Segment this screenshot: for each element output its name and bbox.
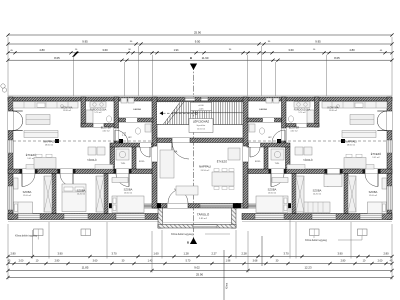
svg-text:KAMRA: KAMRA bbox=[133, 108, 141, 111]
svg-text:KÖZL.: KÖZL. bbox=[139, 160, 146, 163]
dimension chain top row 1 (25.90) bbox=[6, 31, 393, 37]
right bedroom 2 wardrobe bbox=[296, 176, 304, 212]
left unit shower cabin bbox=[116, 149, 129, 165]
extension lines from top dimension chain bbox=[8, 37, 392, 96]
left kitchen counter bbox=[13, 102, 78, 108]
right bedroom 3 label SZOBA bbox=[268, 188, 277, 195]
svg-text:KÖZL.: KÖZL. bbox=[255, 160, 262, 163]
left ELOTER label bbox=[101, 125, 112, 133]
svg-text:3.90: 3.90 bbox=[337, 252, 343, 256]
left unit bathroom wall a bbox=[81, 97, 86, 127]
svg-text:13.60 m2: 13.60 m2 bbox=[124, 193, 133, 195]
svg-text:SZOBA: SZOBA bbox=[369, 190, 378, 194]
svg-text:SZOBA: SZOBA bbox=[313, 189, 322, 193]
svg-text:2.80: 2.80 bbox=[383, 252, 389, 256]
svg-text:9.95: 9.95 bbox=[315, 39, 321, 43]
right bathroom fixtures bbox=[288, 102, 314, 123]
outer wall bottom left wing bbox=[8, 214, 158, 222]
right unit bathroom wall b bbox=[282, 97, 287, 147]
right bathroom label FURDOSZOBA bbox=[294, 109, 311, 115]
svg-text:-0.05: -0.05 bbox=[199, 108, 205, 110]
right dining table 2 bbox=[344, 154, 366, 168]
svg-text:14.20 m2: 14.20 m2 bbox=[313, 194, 322, 196]
left bedroom 1 bed bbox=[14, 178, 33, 214]
left dining table 2 bbox=[34, 154, 56, 168]
left bedroom 1 label SZOBA bbox=[23, 190, 32, 197]
right dining area label ETKEZO bbox=[371, 151, 381, 159]
svg-text:WC: WC bbox=[128, 137, 132, 139]
svg-text:15.80 m2: 15.80 m2 bbox=[329, 110, 338, 112]
vestibule labels bbox=[167, 151, 227, 173]
right bedroom 1 wardrobe bbox=[348, 176, 356, 212]
right unit bedroom divider 1 bbox=[344, 174, 348, 214]
svg-text:SZOBA: SZOBA bbox=[77, 189, 86, 193]
right kitchen counter bbox=[322, 102, 387, 108]
left dining area label ETKEZO bbox=[26, 152, 36, 160]
left unit shower room walls bbox=[110, 147, 136, 170]
storage annex (TAROLO) walls hatched bbox=[158, 208, 236, 228]
svg-text:SZOBA: SZOBA bbox=[23, 190, 32, 194]
svg-text:TUS.: TUS. bbox=[121, 163, 126, 165]
svg-text:3.70: 3.70 bbox=[111, 252, 117, 256]
svg-text:TUS.: TUS. bbox=[275, 163, 280, 165]
stairwell side wall right bbox=[243, 97, 248, 208]
stair landing top text box bbox=[191, 102, 212, 111]
right hall label bbox=[255, 160, 262, 163]
recessed center south wall bbox=[152, 204, 248, 209]
left unit bedroom divider 2 bbox=[104, 174, 108, 214]
left unit pantry bottom wall bbox=[119, 118, 154, 122]
right mid wall cabinets above bbox=[287, 165, 374, 170]
svg-text:FÜRDŐSZOBA: FÜRDŐSZOBA bbox=[294, 109, 311, 112]
svg-text:8.05: 8.05 bbox=[54, 56, 60, 60]
left bathroom label FURDOSZOBA bbox=[90, 109, 107, 115]
svg-text:12.23: 12.23 bbox=[305, 266, 312, 270]
svg-text:25.90: 25.90 bbox=[196, 273, 203, 277]
left bedroom 2 wardrobe bbox=[96, 176, 104, 212]
svg-text:±0.00: ±0.00 bbox=[198, 105, 204, 107]
svg-text:2.00: 2.00 bbox=[378, 260, 383, 263]
svg-text:TÁROLÓ: TÁROLÓ bbox=[197, 212, 210, 217]
svg-text:1.93: 1.93 bbox=[174, 49, 179, 52]
right kitchen label KONYHA bbox=[328, 105, 339, 112]
svg-text:lépcsőház: lépcsőház bbox=[197, 125, 206, 127]
svg-text:5.70 m2: 5.70 m2 bbox=[94, 112, 102, 114]
svg-text:1.28: 1.28 bbox=[183, 252, 189, 256]
right unit wc bottom wall bbox=[247, 143, 290, 147]
svg-text:15.80 m2: 15.80 m2 bbox=[63, 110, 72, 112]
svg-text:2.80: 2.80 bbox=[10, 252, 16, 256]
right dining table bbox=[350, 115, 374, 125]
center living furniture right bbox=[212, 148, 240, 190]
svg-text:KONYHA: KONYHA bbox=[62, 105, 73, 109]
svg-text:2.28: 2.28 bbox=[241, 252, 247, 256]
right unit bedroom divider 2 bbox=[292, 174, 296, 214]
outer wall top (north facade) bbox=[8, 95, 392, 101]
svg-text:5.70: 5.70 bbox=[186, 260, 191, 263]
svg-text:3.70: 3.70 bbox=[283, 252, 289, 256]
svg-text:3.68: 3.68 bbox=[253, 260, 258, 263]
left bathroom fixtures bbox=[86, 102, 112, 123]
outer wall bottom right wing bbox=[242, 214, 392, 222]
dimension chain top row 3 (45 4.80 10 3.60 30 ...) bbox=[6, 48, 393, 57]
svg-text:4.80: 4.80 bbox=[349, 48, 355, 52]
left unit mid wall (y169) bbox=[8, 169, 152, 174]
svg-text:13.60 m2: 13.60 m2 bbox=[268, 193, 277, 195]
right bedroom door arcs bbox=[271, 174, 378, 187]
left living label NAPPALI bbox=[43, 139, 54, 146]
left storage room fixtures bbox=[87, 147, 105, 162]
outer wall right (east facade) bbox=[387, 97, 392, 220]
left bedroom 3 label SZOBA bbox=[124, 188, 133, 195]
right pantry fixtures bbox=[249, 98, 279, 139]
left unit hall door arc bbox=[115, 130, 128, 143]
stairwell side wall left bbox=[152, 97, 157, 208]
entrance door left (double swing) bbox=[13, 111, 23, 131]
edge note left bbox=[0, 0, 1, 1]
svg-text:12.00 m2: 12.00 m2 bbox=[23, 195, 32, 197]
left unit bathroom wall b bbox=[114, 97, 119, 147]
svg-text:4.60 m2: 4.60 m2 bbox=[290, 130, 298, 132]
svg-text:SZOBA: SZOBA bbox=[268, 188, 277, 192]
right unit mid wall (y169) bbox=[248, 169, 392, 174]
right unit bathroom wall a bbox=[315, 97, 320, 127]
svg-text:2.27: 2.27 bbox=[211, 252, 217, 256]
svg-text:Klíma beltéri egység: Klíma beltéri egység bbox=[15, 235, 37, 238]
storage label TAROLO bbox=[197, 212, 210, 220]
dimension chain top row 4 (8.05 | 11.90 | 8.05) bbox=[6, 56, 393, 62]
svg-text:4.80: 4.80 bbox=[39, 48, 45, 52]
svg-text:8.05: 8.05 bbox=[334, 56, 340, 60]
svg-text:Klíma beltéri egység: Klíma beltéri egység bbox=[305, 239, 327, 242]
right bedroom 1 label SZOBA bbox=[369, 190, 378, 197]
dashed beam line across plan bbox=[13, 140, 387, 142]
svg-text:14.20 m2: 14.20 m2 bbox=[77, 194, 86, 196]
left bedroom 3 bed bbox=[112, 178, 144, 213]
svg-text:3.60: 3.60 bbox=[288, 48, 294, 52]
svg-text:11.90: 11.90 bbox=[202, 56, 209, 60]
left mid wall cabinets above bbox=[26, 165, 113, 170]
left bedroom 2 bed bbox=[62, 184, 86, 212]
svg-text:NAPPALI: NAPPALI bbox=[199, 165, 211, 169]
left dining table bbox=[26, 115, 50, 125]
right bedroom 3 bed bbox=[256, 178, 288, 213]
svg-text:12.00 m2: 12.00 m2 bbox=[369, 195, 378, 197]
right bedroom 1 bed bbox=[368, 178, 387, 214]
svg-text:TÁROLÓ: TÁROLÓ bbox=[303, 159, 313, 162]
svg-text:B: B bbox=[190, 56, 192, 60]
staircase treads bbox=[157, 102, 243, 125]
right unit bathroom bottom wall bbox=[286, 124, 319, 128]
right unit shower cabin bbox=[271, 149, 284, 165]
section line B-B (vertical dash-dot with arrows) bbox=[187, 64, 197, 245]
right corridor door arc bbox=[250, 147, 260, 157]
right mid wall door jamb blocks bbox=[269, 169, 381, 174]
dimension chain bottom row 4 (25.90) bbox=[6, 273, 393, 280]
svg-text:11.85: 11.85 bbox=[82, 266, 89, 270]
stair bay lower wall bbox=[157, 138, 243, 143]
svg-text:WC: WC bbox=[268, 137, 272, 139]
svg-text:NAPPALI: NAPPALI bbox=[43, 139, 54, 143]
right living label NAPPALI bbox=[345, 139, 356, 146]
svg-text:B: B bbox=[187, 241, 189, 245]
svg-text:25.90: 25.90 bbox=[194, 31, 201, 35]
column left wing black squares bbox=[55, 139, 123, 143]
svg-text:2.80: 2.80 bbox=[55, 260, 60, 263]
center bay french door arcs to storage bbox=[168, 189, 188, 203]
svg-text:3.90: 3.90 bbox=[57, 252, 63, 256]
right bedroom 2 bed bbox=[303, 175, 342, 213]
svg-text:9.02: 9.02 bbox=[194, 266, 200, 270]
svg-text:3.60: 3.60 bbox=[102, 48, 108, 52]
entrance door right (double swing) bbox=[377, 111, 387, 131]
dimension chain bottom row 2 bbox=[6, 260, 393, 266]
vertical leader line center (klima) bbox=[224, 250, 229, 300]
klima indoor unit boxes below south wall bbox=[34, 229, 368, 236]
right unit hall door arc bbox=[272, 130, 285, 143]
right sofa bbox=[342, 131, 376, 138]
dimension chain top row 2 (9.95 | 30 | 9.50 | 30 | 9.95) bbox=[6, 39, 393, 45]
svg-text:5.70 m2: 5.70 m2 bbox=[298, 112, 306, 114]
column right wing black squares bbox=[277, 139, 345, 143]
dimension chain bottom row 1 bbox=[6, 252, 393, 259]
svg-text:3.60: 3.60 bbox=[93, 260, 98, 263]
left hall label bbox=[139, 160, 146, 163]
center living furniture left bbox=[160, 150, 198, 195]
svg-text:2.80: 2.80 bbox=[341, 260, 346, 263]
svg-text:2.00: 2.00 bbox=[19, 260, 24, 263]
left sofa bbox=[24, 131, 58, 138]
svg-text:Klíma: Klíma bbox=[226, 282, 229, 289]
right unit pantry bottom wall bbox=[247, 118, 282, 122]
left bedroom 2 label SZOBA bbox=[77, 189, 86, 196]
right unit shower room walls bbox=[264, 147, 290, 170]
columns at terrace edges bbox=[109, 203, 291, 208]
tree symbol top left bbox=[1, 84, 7, 92]
left unit bathroom bottom wall bbox=[81, 124, 114, 128]
left mid wall door jamb blocks bbox=[20, 169, 132, 174]
extension lines bottom bbox=[8, 209, 392, 280]
left kitchen label KONYHA bbox=[62, 105, 73, 112]
svg-text:24.50 m2: 24.50 m2 bbox=[201, 170, 211, 172]
svg-text:KONYHA: KONYHA bbox=[328, 105, 339, 109]
svg-text:9.05 m2: 9.05 m2 bbox=[372, 157, 380, 159]
svg-text:28.60 m2: 28.60 m2 bbox=[45, 144, 54, 146]
svg-text:1.60: 1.60 bbox=[153, 252, 159, 256]
stair cut wedge left flight bbox=[157, 102, 184, 124]
svg-text:KAMRA: KAMRA bbox=[259, 108, 267, 111]
left bedroom 1 wardrobe bbox=[44, 176, 52, 212]
svg-text:SZOBA: SZOBA bbox=[124, 188, 133, 192]
svg-text:TÁROLÓ: TÁROLÓ bbox=[87, 159, 97, 162]
svg-text:28.60 m2: 28.60 m2 bbox=[347, 144, 356, 146]
left pantry fixtures bbox=[121, 98, 151, 139]
terrace glazing left (window band y204) bbox=[114, 204, 155, 208]
svg-text:9.50: 9.50 bbox=[195, 39, 201, 43]
right storage room fixtures bbox=[295, 147, 313, 162]
stair direction arrow bbox=[160, 111, 198, 115]
left corridor door arc bbox=[140, 147, 150, 157]
svg-text:9.95: 9.95 bbox=[82, 39, 88, 43]
terrace glazing right (window band y204) bbox=[241, 204, 286, 208]
left unit bedroom divider 1 bbox=[52, 174, 56, 214]
svg-text:14.55 m2: 14.55 m2 bbox=[197, 129, 205, 131]
right ELOTER label bbox=[289, 125, 300, 133]
svg-text:Klíma beltéri egység: Klíma beltéri egység bbox=[171, 233, 193, 236]
dimension chain bottom row 3 bbox=[6, 266, 393, 273]
svg-text:4.60 m2: 4.60 m2 bbox=[102, 130, 110, 132]
vertical leader line right of center bbox=[261, 236, 263, 266]
klima labels above bottom chain bbox=[15, 233, 362, 242]
left unit wc bottom wall bbox=[110, 143, 153, 147]
left bedroom door arcs bbox=[22, 174, 129, 187]
stairwell label LEPCSOHAZ bbox=[189, 119, 213, 133]
outer wall left (west facade) bbox=[8, 97, 13, 220]
svg-text:5.85 m2: 5.85 m2 bbox=[199, 218, 208, 220]
svg-text:FÜRDŐSZOBA: FÜRDŐSZOBA bbox=[90, 109, 107, 112]
svg-text:NAPPALI: NAPPALI bbox=[345, 139, 356, 143]
svg-text:1.98: 1.98 bbox=[226, 260, 231, 263]
right bedroom 2 label SZOBA bbox=[313, 189, 322, 196]
stair bay door swing bbox=[172, 143, 189, 160]
columns at storage corners bbox=[156, 203, 238, 208]
